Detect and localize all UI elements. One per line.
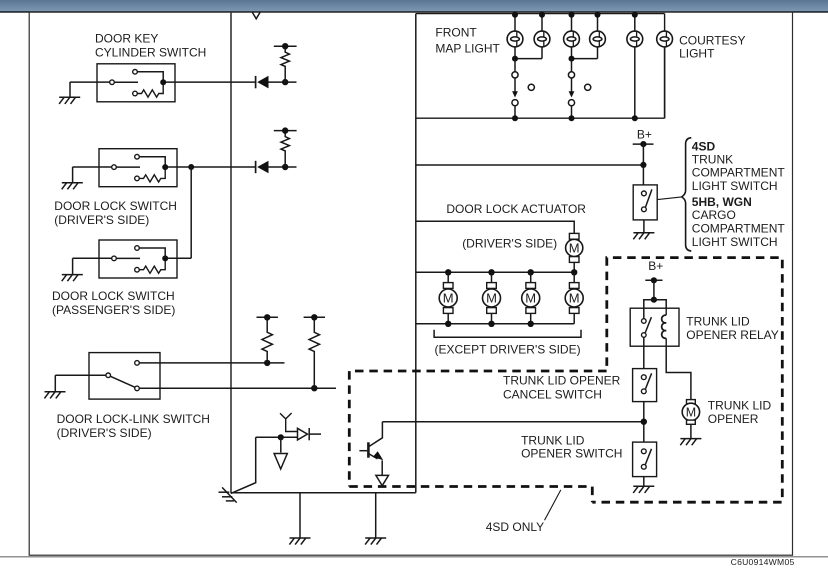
- leader 4SD only: [545, 490, 561, 520]
- ground (bottom left): [289, 538, 310, 545]
- svg-text:M: M: [686, 405, 696, 419]
- svg-text:COURTESY: COURTESY: [679, 33, 745, 47]
- wire driver's switch to diode D2: [168, 166, 256, 168]
- door lock switch (driver's side): [99, 149, 177, 187]
- lamp L6 courtesy light: [657, 31, 673, 47]
- B+ stub rail R1: [274, 43, 297, 49]
- node relay feed: [651, 297, 657, 303]
- label block 4SD / 5HB: [692, 139, 786, 248]
- svg-text:M: M: [525, 291, 536, 306]
- ground (trunk compartment switch): [633, 233, 654, 240]
- svg-text:TRUNK LID: TRUNK LID: [686, 315, 750, 329]
- motor M1: [439, 272, 457, 324]
- door lock-link switch label: [57, 412, 210, 440]
- ground (door lock switch passenger's): [62, 258, 83, 281]
- connector pin circle b1: [568, 72, 574, 78]
- svg-text:DOOR KEY: DOOR KEY: [95, 31, 158, 45]
- trunk lid opener cancel switch: [633, 369, 657, 402]
- lamp L5: [627, 31, 643, 47]
- svg-text:M: M: [486, 291, 497, 306]
- wire connector to bottom bus: [514, 106, 516, 118]
- wire row1 switch to diode: [166, 81, 256, 83]
- svg-text:(DRIVER'S SIDE): (DRIVER'S SIDE): [57, 426, 152, 440]
- svg-text:CYLINDER SWITCH: CYLINDER SWITCH: [95, 46, 206, 60]
- wire center vertical line: [415, 14, 417, 493]
- motor M2: [483, 272, 501, 324]
- svg-text:MAP LIGHT: MAP LIGHT: [435, 41, 500, 55]
- door lock switch (passenger's) label: [52, 289, 175, 317]
- leader line to brace: [657, 197, 681, 200]
- lamp L3: [564, 31, 580, 47]
- B+ terminal (relay): [645, 277, 662, 283]
- wire diode D2 to stub: [269, 166, 297, 168]
- dashed box 4SD only: [349, 371, 606, 502]
- wire B+ down: [642, 144, 644, 185]
- wire lamps 1-2 join: [515, 47, 542, 59]
- svg-text:4SD: 4SD: [692, 139, 716, 153]
- node R4 junction: [311, 385, 317, 391]
- door lock switch (passenger's side): [99, 240, 177, 278]
- wire relay feed split: [644, 300, 666, 309]
- svg-text:OPENER: OPENER: [708, 412, 759, 426]
- ground (door lock-link switch): [44, 375, 65, 398]
- wire join to connector: [514, 59, 516, 72]
- wire lamp6 down: [664, 47, 666, 118]
- wire main vertical bus: [230, 13, 232, 494]
- front map light label: [435, 26, 500, 56]
- wire stem to arrow: [280, 437, 282, 452]
- svg-text:4SD ONLY: 4SD ONLY: [486, 520, 544, 534]
- ground (opener switch): [633, 486, 654, 493]
- wire actuator bottom bus: [416, 323, 574, 325]
- node top bus dots: [445, 269, 577, 275]
- wire collector to trunk switches: [382, 421, 643, 423]
- svg-text:(DRIVER'S SIDE): (DRIVER'S SIDE): [54, 213, 149, 227]
- wire ground to switch driver's: [73, 166, 112, 168]
- wire switch to ground: [643, 220, 645, 233]
- svg-text:OPENER RELAY: OPENER RELAY: [686, 328, 778, 342]
- arrow down a1: [512, 78, 518, 97]
- wire ground to switch: [70, 81, 110, 83]
- door lock switch (driver's) label: [54, 199, 177, 227]
- connector pin circle floating a3: [528, 84, 534, 90]
- diode D3: [298, 428, 322, 440]
- svg-text:TRUNK LID OPENER: TRUNK LID OPENER: [503, 373, 621, 387]
- svg-text:DOOR LOCK-LINK SWITCH: DOOR LOCK-LINK SWITCH: [57, 412, 210, 426]
- wire stem ground 2: [375, 493, 377, 538]
- trunk lid opener switch: [633, 442, 657, 477]
- wire motor to ground: [690, 424, 692, 438]
- svg-text:5HB, WGN: 5HB, WGN: [692, 195, 752, 209]
- node branch driver/passenger: [188, 164, 194, 170]
- svg-text:(EXCEPT DRIVER'S SIDE): (EXCEPT DRIVER'S SIDE): [435, 342, 581, 356]
- lamp box frame: [416, 14, 665, 119]
- wire ground to passenger switch: [73, 257, 112, 259]
- svg-text:LIGHT SWITCH: LIGHT SWITCH: [692, 235, 778, 249]
- wire relay switch to cancel switch: [643, 346, 645, 368]
- wire stem ground 1: [299, 493, 301, 538]
- wire connector b to bottom bus: [571, 106, 573, 118]
- wire lamp top stubs: [515, 14, 635, 32]
- lamp L1: [507, 31, 523, 47]
- node R3 junction: [264, 360, 270, 366]
- svg-text:COMPARTMENT: COMPARTMENT: [692, 222, 786, 236]
- wire B+ to relay: [653, 280, 655, 299]
- page edge line: [0, 556, 828, 558]
- arrow down b1: [569, 78, 575, 97]
- wire feed to B+ node: [416, 164, 644, 166]
- wire to bus ground: [231, 437, 256, 493]
- door key cylinder switch: [97, 64, 175, 102]
- wire lamps 3-4 join: [572, 47, 598, 59]
- ground (door lock switch driver's): [62, 167, 83, 189]
- node D3 junction: [278, 434, 284, 440]
- svg-text:M: M: [569, 291, 580, 306]
- node B+ junction: [640, 162, 646, 168]
- node join34: [569, 56, 575, 62]
- svg-text:TRUNK: TRUNK: [692, 152, 733, 166]
- svg-text:C6U0914WM05: C6U0914WM05: [731, 557, 795, 567]
- wire join34 to connector: [571, 59, 573, 72]
- svg-text:M: M: [569, 241, 580, 256]
- B+ stub rail R3: [257, 314, 278, 320]
- wire lock-link bottom contact row: [139, 387, 336, 389]
- wire actuator top bus: [416, 271, 574, 273]
- trunk compartment light switch: [633, 185, 657, 220]
- B+ terminal (trunk compartment): [633, 141, 654, 147]
- relay trunk lid opener relay: [630, 308, 679, 346]
- svg-text:DOOR LOCK ACTUATOR: DOOR LOCK ACTUATOR: [446, 202, 586, 216]
- connector pin circle floating b3: [585, 84, 591, 90]
- relay label: [686, 315, 778, 343]
- svg-text:B+: B+: [648, 259, 663, 273]
- node row1 junction: [282, 79, 288, 85]
- transistor Q1: [359, 422, 388, 486]
- wire relay coil to motor: [666, 346, 691, 399]
- svg-text:LIGHT SWITCH: LIGHT SWITCH: [692, 179, 778, 193]
- connector pin circle a1: [512, 72, 518, 78]
- wire actuator feed: [416, 221, 574, 233]
- node collector junction: [641, 419, 647, 425]
- lamp L4: [590, 31, 606, 47]
- svg-text:LIGHT: LIGHT: [679, 47, 715, 61]
- ground (trunk lid opener motor): [680, 439, 701, 446]
- svg-text:DOOR LOCK SWITCH: DOOR LOCK SWITCH: [54, 199, 177, 213]
- connector triangle (out): [274, 454, 287, 470]
- header bar: [0, 0, 828, 13]
- connector pin circle a2: [512, 100, 518, 106]
- connector Y symbol: [280, 413, 298, 432]
- svg-text:OPENER SWITCH: OPENER SWITCH: [521, 447, 622, 461]
- resistor R4: [309, 317, 319, 388]
- svg-text:TRUNK LID: TRUNK LID: [708, 398, 772, 412]
- node join12: [512, 56, 518, 62]
- connector arrow V at top: [252, 12, 260, 18]
- courtesy light label: [679, 33, 745, 60]
- wire branch vertical: [190, 167, 192, 258]
- B+ stub rail R2: [274, 127, 297, 133]
- resistor R1: [281, 46, 289, 82]
- connector pin circle b2: [568, 100, 574, 106]
- ground (bottom middle): [365, 538, 386, 545]
- svg-text:COMPARTMENT: COMPARTMENT: [692, 166, 786, 180]
- svg-text:(DRIVER'S SIDE): (DRIVER'S SIDE): [462, 237, 557, 251]
- node lamp top dots: [512, 12, 638, 18]
- wire passenger switch to branch: [168, 257, 191, 259]
- resistor R3: [262, 317, 272, 363]
- door lock-link switch: [89, 353, 160, 400]
- trunk lid opener label: [708, 398, 772, 426]
- resistor R2: [281, 131, 289, 167]
- wire cancel switch to node: [643, 402, 645, 443]
- cancel switch label: [503, 373, 621, 401]
- brace: [682, 138, 692, 251]
- wire opener switch to ground: [643, 477, 645, 487]
- wire diode to stub: [269, 81, 297, 83]
- node row2 junction: [282, 164, 288, 170]
- svg-text:FRONT: FRONT: [435, 26, 477, 40]
- svg-text:(PASSENGER'S SIDE): (PASSENGER'S SIDE): [52, 303, 175, 317]
- ground (door key cylinder switch): [59, 82, 80, 104]
- motor trunk lid opener: [682, 400, 699, 425]
- opener switch label: [521, 433, 622, 460]
- wire lamp5 down: [634, 47, 636, 118]
- svg-text:TRUNK LID: TRUNK LID: [521, 433, 585, 447]
- B+ stub rail R4: [304, 314, 325, 320]
- motor M4: [565, 272, 583, 324]
- lamp L2: [534, 31, 550, 47]
- svg-text:CANCEL SWITCH: CANCEL SWITCH: [503, 387, 602, 401]
- node bottom bus dots: [512, 115, 638, 121]
- motor M3: [522, 272, 540, 324]
- dashed box trunk lid opener: [592, 258, 782, 503]
- wire bottom horizontal: [231, 492, 416, 494]
- diode D1: [256, 76, 269, 89]
- svg-text:M: M: [443, 291, 454, 306]
- wire lock-link top contact row: [139, 362, 284, 364]
- wire junction row to diode D3: [256, 436, 298, 438]
- motor M0 driver's actuator: [566, 233, 583, 272]
- svg-text:CARGO: CARGO: [692, 208, 736, 222]
- node bottom bus dots: [445, 321, 534, 327]
- door key cylinder switch label: [95, 31, 206, 59]
- bracket except driver's: [434, 330, 581, 338]
- diode D2: [256, 161, 269, 174]
- ground (bus, angled): [219, 487, 237, 502]
- svg-text:B+: B+: [637, 128, 652, 142]
- wire ground to lock-link switch: [55, 374, 106, 376]
- svg-text:DOOR LOCK SWITCH: DOOR LOCK SWITCH: [52, 289, 175, 303]
